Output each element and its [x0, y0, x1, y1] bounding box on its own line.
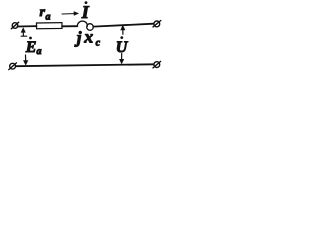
label U	[116, 36, 129, 56]
svg-text:a: a	[46, 12, 51, 23]
label E_a	[25, 37, 42, 57]
emf arrow E_a upper segment with up arrowhead	[21, 27, 27, 36]
terminal bottom-right	[153, 61, 161, 68]
wire top-left segment	[18, 25, 37, 27]
terminal bottom-left	[9, 63, 17, 70]
resistor r_a	[36, 23, 62, 29]
current arrow	[62, 11, 79, 15]
svg-text:I: I	[81, 2, 90, 22]
svg-text:j: j	[74, 28, 82, 47]
emf arrow E_a lower segment with down arrowhead	[23, 55, 28, 66]
wire bottom	[16, 64, 153, 66]
label jx_c	[74, 27, 101, 49]
svg-text:a: a	[37, 46, 42, 57]
svg-text:E: E	[25, 39, 37, 56]
terminal top-left	[11, 22, 18, 29]
voltage arrow U lower segment with down arrowhead	[119, 54, 124, 65]
terminal top-right	[153, 21, 161, 27]
voltage arrow U upper segment with up arrowhead	[120, 25, 125, 35]
wire top-right segment	[93, 24, 153, 27]
label I	[81, 1, 90, 22]
label r_a	[40, 5, 51, 23]
wire top-mid segment	[62, 25, 77, 27]
svg-text:x: x	[83, 27, 93, 47]
svg-text:c: c	[96, 37, 101, 48]
inductor jx_c	[77, 21, 93, 30]
svg-text:U: U	[116, 39, 129, 56]
